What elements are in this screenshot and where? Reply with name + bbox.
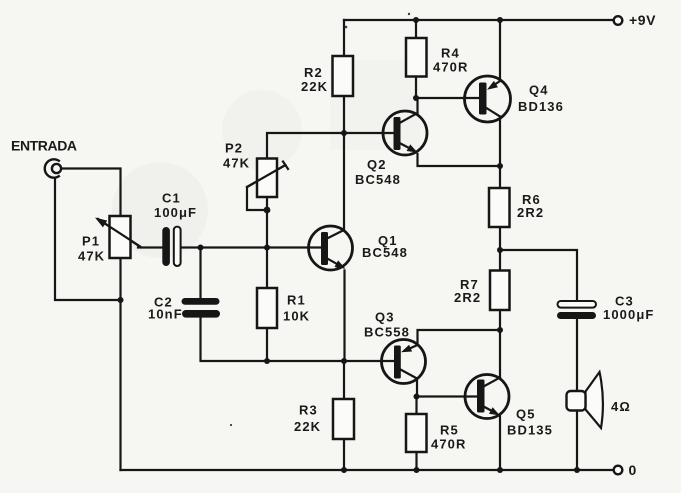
svg-text:47K: 47K — [223, 156, 250, 171]
svg-text:Q4: Q4 — [529, 83, 549, 98]
svg-text:Q2: Q2 — [367, 157, 387, 172]
svg-text:1000μF: 1000μF — [603, 307, 654, 322]
svg-text:R1: R1 — [287, 293, 306, 308]
svg-text:ENTRADA: ENTRADA — [11, 138, 77, 154]
svg-text:R2: R2 — [304, 65, 323, 80]
svg-text:0: 0 — [629, 462, 637, 478]
svg-text:C1: C1 — [162, 191, 181, 206]
svg-text:22K: 22K — [301, 79, 328, 94]
svg-text:2R2: 2R2 — [517, 205, 544, 220]
svg-text:47K: 47K — [78, 249, 105, 264]
svg-text:BD135: BD135 — [507, 423, 553, 438]
svg-text:R3: R3 — [299, 403, 318, 418]
svg-text:R5: R5 — [440, 423, 459, 438]
svg-text:470R: 470R — [433, 60, 468, 75]
svg-text:4Ω: 4Ω — [611, 399, 631, 414]
svg-text:Q5: Q5 — [516, 407, 536, 422]
svg-text:BC548: BC548 — [355, 172, 401, 187]
svg-text:BD136: BD136 — [518, 99, 564, 114]
svg-text:100μF: 100μF — [154, 205, 197, 220]
svg-text:10K: 10K — [283, 309, 310, 324]
svg-text:BC548: BC548 — [362, 245, 408, 260]
svg-text:470R: 470R — [431, 437, 466, 452]
svg-text:+9V: +9V — [629, 12, 656, 28]
svg-text:Q3: Q3 — [375, 310, 395, 325]
svg-text:10nF: 10nF — [148, 307, 183, 322]
svg-text:R4: R4 — [441, 46, 460, 61]
svg-text:2R2: 2R2 — [454, 290, 481, 305]
svg-text:BC558: BC558 — [364, 325, 410, 340]
svg-text:22K: 22K — [294, 419, 321, 434]
svg-text:P1: P1 — [82, 234, 100, 249]
svg-text:P2: P2 — [225, 141, 243, 156]
